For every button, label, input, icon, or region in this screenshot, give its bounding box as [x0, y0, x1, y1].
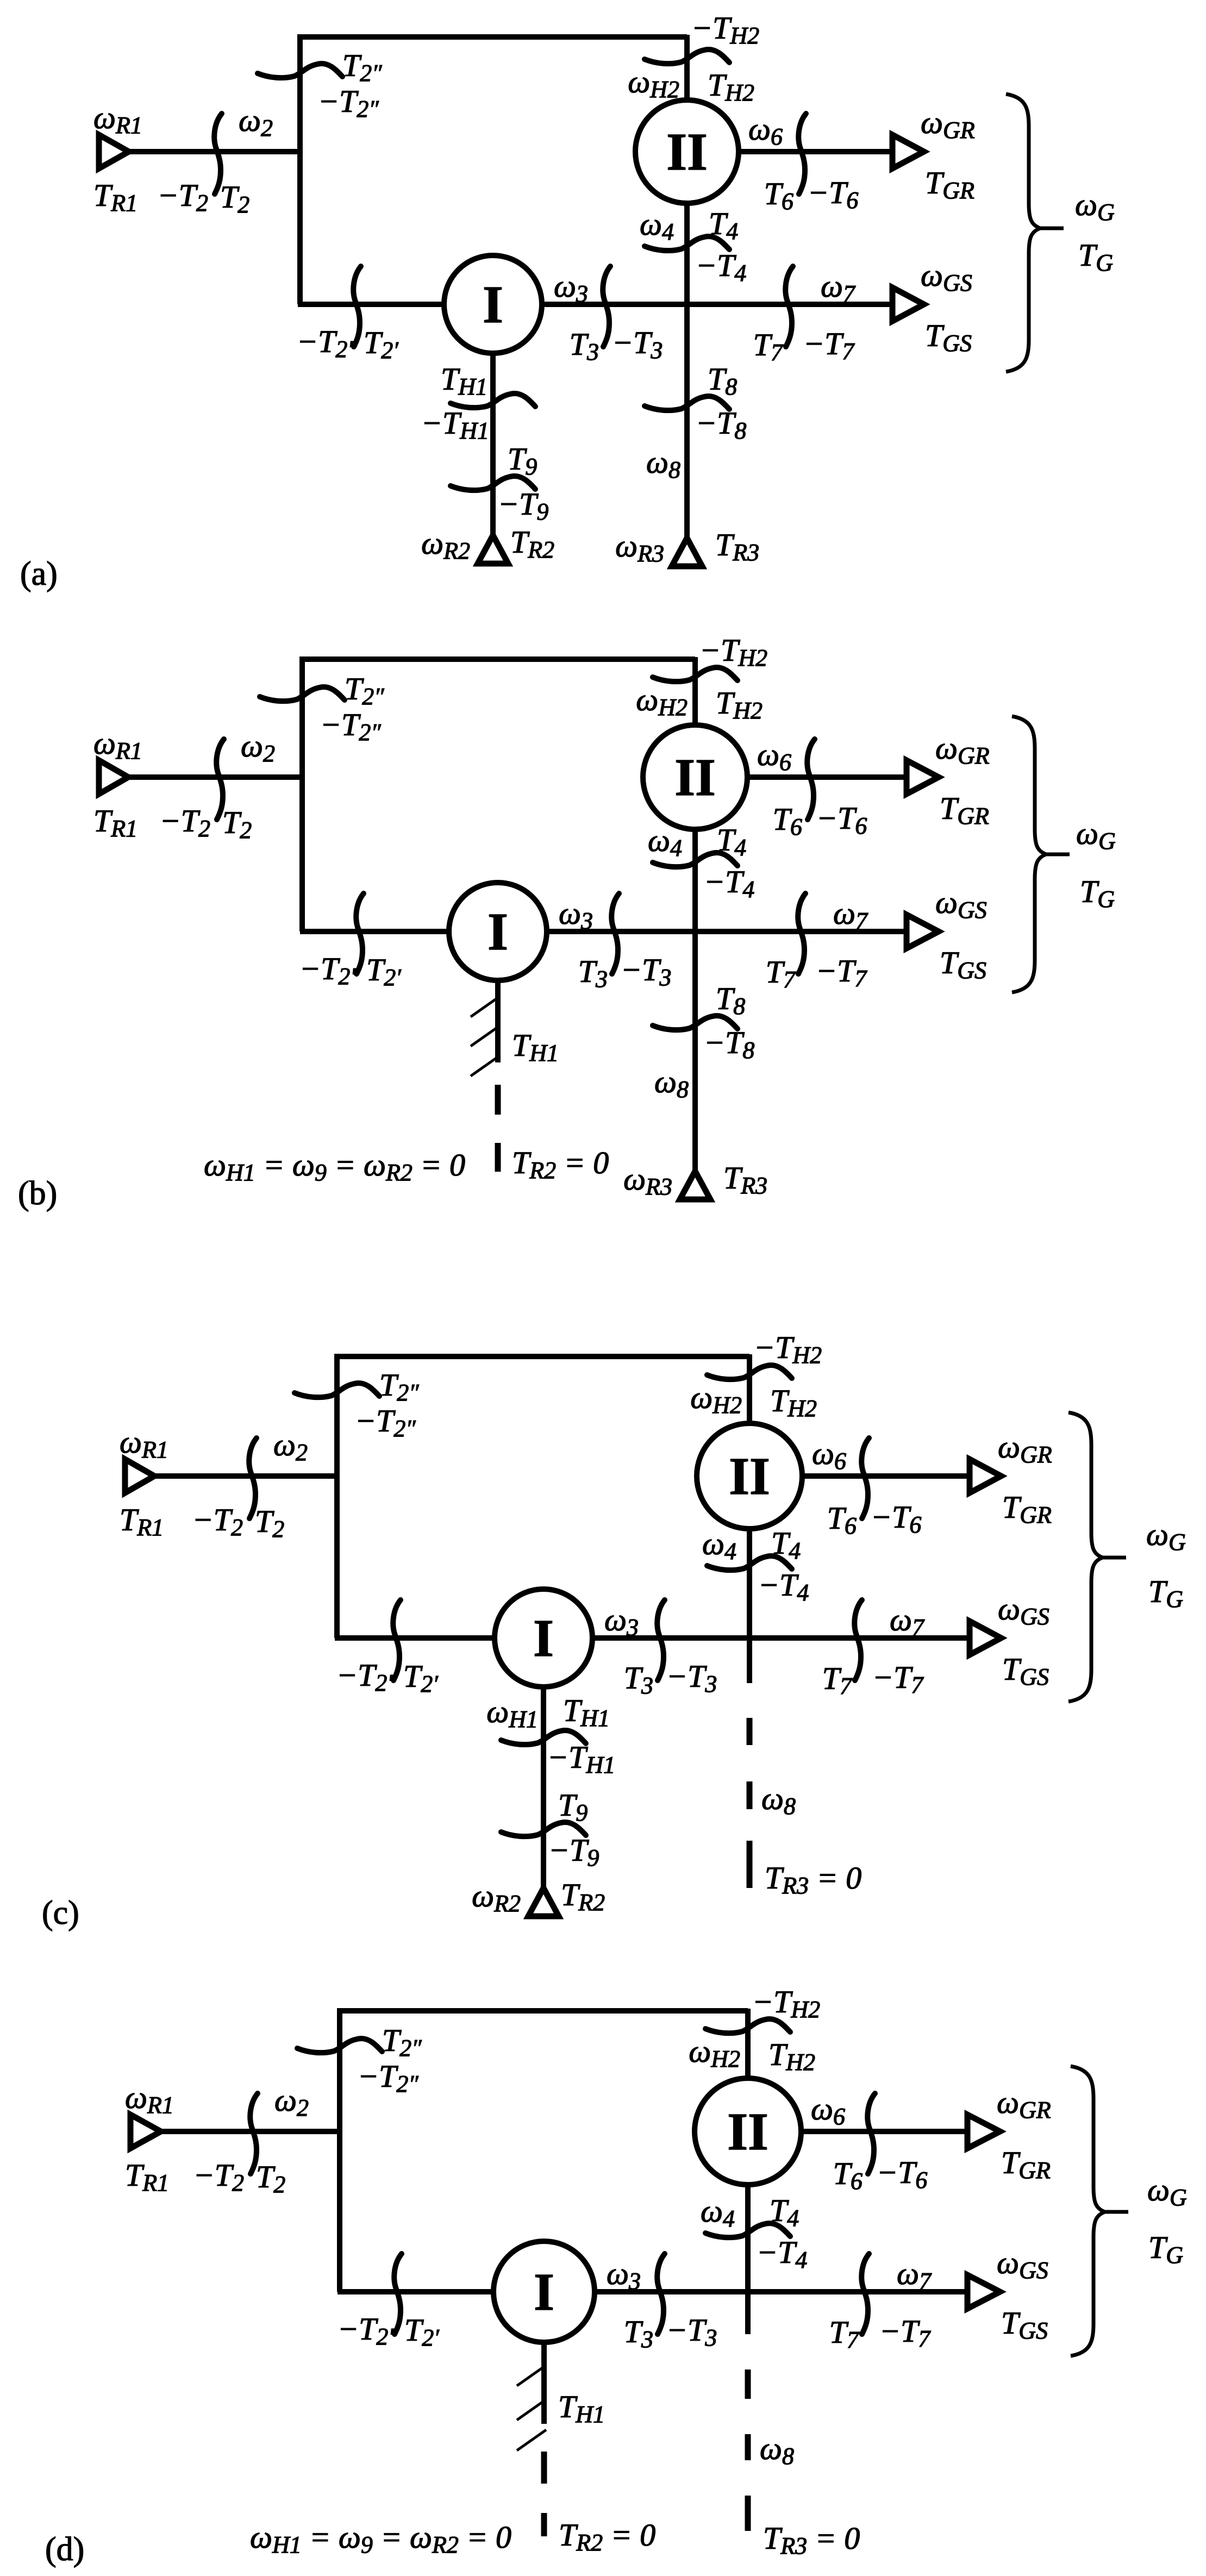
svg-text:II: II	[729, 1447, 770, 1505]
cut mark c T6 on shaft 6	[861, 1438, 869, 1518]
svg-text:(d): (d)	[45, 2531, 84, 2568]
cut mark b T3 on shaft 3	[611, 893, 619, 974]
cut mark c T2pp on left link	[295, 1383, 379, 1397]
wire c carrier shaft H2/4	[747, 1354, 752, 1683]
cut mark a T9 on shaft 9	[451, 476, 535, 490]
cut mark c TH2 above unit II	[707, 1365, 792, 1379]
arrow b input R1	[99, 760, 128, 794]
wire d ground hatch 3	[517, 2430, 546, 2450]
wire d shaft 8 dash 3	[745, 2496, 751, 2531]
wire b carrier shaft H2/4/8	[692, 657, 698, 1174]
wire b fixed carrier shaft H1	[495, 931, 501, 1062]
wire a shaft H1/9	[490, 304, 496, 539]
wire c shaft H1/9	[541, 1638, 546, 1891]
wire c shaft 6 to GR	[749, 1473, 974, 1479]
wire a lower shaft	[298, 302, 897, 307]
arrow c input R1	[125, 1459, 154, 1493]
wire b shaft 6 to GR	[695, 774, 911, 780]
wire a shaft 6 to GR	[687, 149, 897, 154]
wire d shaft 9 dash 1	[541, 2452, 547, 2484]
wire b ground hatch 2	[471, 1026, 500, 1046]
cut mark c TH1 on shaft H1	[501, 1730, 586, 1745]
wire b shaft 9 dash 2	[495, 1143, 501, 1172]
wire c input shaft R1	[151, 1473, 337, 1479]
cut mark b T8 on shaft 8	[653, 1016, 738, 1030]
wire a input shaft R1	[126, 149, 300, 154]
cut mark a T2 on input shaft	[214, 114, 222, 194]
planetary unit unit I (d)	[493, 2241, 595, 2342]
cut mark d T2pp on left link	[297, 2039, 382, 2053]
wire d input shaft R1	[158, 2129, 340, 2134]
planetary unit unit II (a)	[635, 100, 739, 203]
svg-text:(a): (a)	[20, 555, 58, 592]
cut mark a T4 on shaft 4	[645, 236, 729, 251]
cut mark a T6 on shaft 6	[798, 114, 806, 194]
wire b lower shaft	[300, 929, 911, 934]
cut mark b T7 on shaft 7	[798, 893, 805, 974]
cut mark c T3 on shaft 3	[657, 1600, 665, 1680]
cut mark a TH2 above unit II	[645, 49, 729, 64]
cut mark a T8 on shaft 8	[645, 396, 729, 410]
anchor triangle c R2	[528, 1888, 559, 1916]
arrow c output GR	[970, 1459, 1001, 1493]
planetary unit unit II (b)	[643, 725, 747, 829]
cut mark b T2pp on left link	[260, 687, 345, 701]
cut mark d T7 on shaft 7	[861, 2254, 869, 2334]
wire b input shaft R1	[125, 774, 302, 780]
wire d top link T2pp	[340, 2011, 748, 2292]
cut mark c T9 on shaft 9	[501, 1822, 586, 1836]
wire d shaft 8 dash 2	[745, 2434, 751, 2460]
wire d ground hatch 2	[517, 2399, 546, 2420]
cut mark d T4 on shaft 4	[705, 2223, 790, 2237]
planetary unit unit I (b)	[449, 883, 547, 980]
anchor triangle a R2	[478, 535, 508, 564]
planetary unit unit II (c)	[697, 1423, 802, 1529]
svg-text:(b): (b)	[18, 1175, 57, 1212]
planetary unit unit II (d)	[695, 2078, 801, 2185]
brace d generator group	[1071, 2066, 1105, 2356]
cut mark a T2p on lower link	[353, 266, 361, 347]
cut mark b TH2 above unit II	[653, 667, 738, 681]
brace a generator group	[1006, 94, 1040, 372]
cut mark d T6 on shaft 6	[867, 2093, 875, 2174]
wire b top link T2pp	[302, 659, 695, 931]
planetary unit unit I (a)	[444, 255, 542, 353]
arrow d output GS	[967, 2275, 1000, 2309]
wire b shaft 9 dash 1	[495, 1085, 501, 1115]
svg-text:I: I	[488, 903, 508, 961]
wire c shaft 8 dash 3	[747, 1841, 753, 1888]
svg-text:TR3 = 0: TR3 = 0	[765, 1860, 861, 1899]
wire c lower shaft	[335, 1635, 974, 1641]
arrow c output GS	[970, 1621, 1001, 1655]
cut mark d T3 on shaft 3	[657, 2254, 665, 2334]
brace b generator group	[1012, 716, 1046, 992]
wire a top link T2pp	[300, 37, 687, 304]
svg-text:TR3 = 0: TR3 = 0	[763, 2521, 860, 2559]
wire d ground hatch 1	[517, 2365, 546, 2386]
arrow d input R1	[130, 2115, 161, 2148]
brace c generator group	[1068, 1412, 1103, 1702]
svg-text:I: I	[483, 276, 503, 334]
wire a carrier shaft H2/4/8	[684, 35, 690, 541]
svg-text:II: II	[674, 748, 716, 806]
planetary unit unit I (c)	[495, 1589, 592, 1687]
cut mark b T2p on lower link	[356, 893, 364, 974]
svg-text:TR2 = 0: TR2 = 0	[559, 2517, 655, 2556]
arrow b output GS	[907, 915, 939, 948]
cut mark c T2 on input shaft	[249, 1438, 257, 1518]
cut mark b T4 on shaft 4	[653, 853, 738, 867]
cut mark d T2p on lower link	[394, 2254, 402, 2334]
arrow a output GS	[892, 287, 924, 321]
svg-text:(c): (c)	[42, 1895, 79, 1931]
wire b ground hatch 3	[471, 1055, 500, 1076]
cut mark a TH1 on shaft H1	[451, 393, 535, 408]
cut mark b T2 on input shaft	[216, 739, 224, 820]
wire b ground hatch 1	[471, 996, 500, 1017]
wire d lower shaft	[338, 2289, 972, 2294]
anchor triangle b R3	[680, 1171, 710, 1199]
anchor triangle a R3	[672, 538, 702, 566]
svg-text:II: II	[666, 123, 708, 181]
cut mark b T6 on shaft 6	[807, 739, 815, 820]
wire c shaft 8 dash 2	[747, 1781, 753, 1809]
arrow b output GR	[907, 760, 939, 794]
wire d shaft 6 to GR	[748, 2129, 972, 2134]
wire c top link T2pp	[337, 1356, 749, 1638]
svg-text:I: I	[533, 1609, 554, 1667]
wire d shaft 9 dash 2	[541, 2513, 547, 2536]
cut mark d TH2 above unit II	[705, 2019, 790, 2033]
cut mark a T3 on shaft 3	[603, 266, 610, 347]
wire d shaft 8 dash 1	[745, 2369, 751, 2399]
svg-text:II: II	[727, 2103, 768, 2161]
arrow a input R1	[99, 135, 129, 168]
svg-text:I: I	[534, 2263, 554, 2321]
svg-text:TR2 = 0: TR2 = 0	[512, 1145, 609, 1184]
cut mark a T2pp on left link	[258, 64, 342, 78]
cut mark c T7 on shaft 7	[854, 1600, 862, 1680]
arrow d output GR	[967, 2115, 1000, 2148]
cut mark a T7 on shaft 7	[785, 266, 793, 347]
cut mark c T4 on shaft 4	[707, 1556, 792, 1570]
wire d fixed carrier shaft H1	[541, 2292, 547, 2424]
arrow a output GR	[892, 135, 924, 168]
wire c shaft 8 dash 1	[747, 1718, 753, 1745]
cut mark c T2p on lower link	[393, 1600, 401, 1680]
wire d carrier shaft H2/4	[745, 2009, 751, 2334]
cut mark d T2 on input shaft	[250, 2093, 258, 2174]
